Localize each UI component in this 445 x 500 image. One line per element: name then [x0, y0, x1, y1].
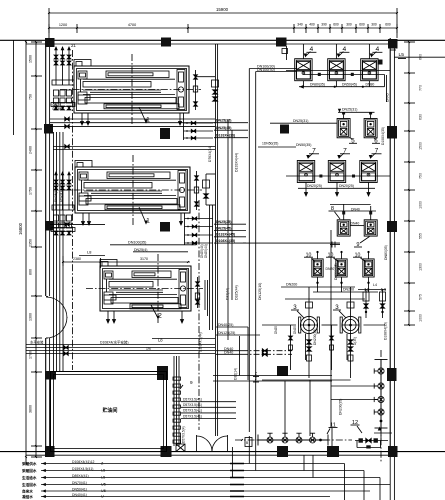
svg-text:1500: 1500	[419, 142, 423, 150]
svg-text:1700: 1700	[29, 351, 33, 359]
svg-text:1500: 1500	[29, 55, 33, 63]
svg-text:生活给水: 生活给水	[22, 475, 37, 480]
svg-text:750: 750	[29, 94, 33, 100]
svg-text:D32(14): D32(14)	[234, 368, 238, 380]
svg-text:DN25: DN25	[293, 326, 297, 334]
svg-text:630: 630	[419, 114, 423, 120]
svg-text:DN25(45): DN25(45)	[216, 126, 231, 130]
svg-text:DN80(35): DN80(35)	[310, 82, 325, 86]
svg-text:2: 2	[158, 313, 162, 320]
svg-text:DN80: DN80	[366, 82, 375, 86]
svg-text:DN40: DN40	[351, 222, 360, 226]
svg-text:DN125(25): DN125(25)	[218, 331, 235, 335]
svg-text:1: 1	[146, 218, 150, 225]
svg-text:DN200: DN200	[286, 283, 297, 287]
svg-text:DN100(35): DN100(35)	[128, 241, 147, 245]
svg-text:DN70(41): DN70(41)	[72, 481, 87, 485]
svg-text:贮油间: 贮油间	[102, 407, 118, 414]
svg-text:自来水: 自来水	[22, 488, 33, 493]
svg-text:800: 800	[29, 269, 33, 275]
svg-text:300: 300	[371, 23, 377, 27]
svg-text:770: 770	[419, 85, 423, 91]
svg-text:水平安装: 水平安装	[30, 340, 44, 345]
svg-text:2400: 2400	[29, 146, 33, 154]
svg-text:D57X3.5(41): D57X3.5(41)	[183, 414, 202, 418]
svg-text:3800: 3800	[29, 405, 33, 413]
svg-text:凝结水: 凝结水	[22, 494, 33, 499]
svg-text:DN25(31): DN25(31)	[293, 119, 308, 123]
svg-text:DN50(35): DN50(35)	[296, 143, 311, 147]
svg-text:采暖供水: 采暖供水	[21, 461, 37, 466]
svg-text:D133X4(45): D133X4(45)	[216, 233, 235, 237]
svg-text:DN50(41): DN50(41)	[72, 487, 87, 491]
svg-text:DN25(44): DN25(44)	[204, 244, 208, 258]
svg-text:D57X3.5(41): D57X3.5(41)	[183, 403, 202, 407]
svg-text:21: 21	[71, 43, 76, 48]
svg-text:1300: 1300	[419, 263, 423, 271]
svg-text:DN40(25): DN40(25)	[218, 323, 233, 327]
svg-text:750: 750	[419, 173, 423, 179]
svg-text:DN200(35): DN200(35)	[339, 399, 343, 415]
svg-text:DN40(41): DN40(41)	[72, 493, 87, 497]
svg-text:16800: 16800	[18, 222, 23, 235]
svg-text:1DN50(35): 1DN50(35)	[262, 141, 278, 145]
svg-text:340: 340	[297, 23, 303, 27]
svg-text:L5: L5	[399, 52, 405, 58]
svg-text:DN25(44): DN25(44)	[200, 244, 204, 258]
svg-text:DN50(45): DN50(45)	[342, 82, 357, 86]
svg-text:555: 555	[419, 233, 423, 239]
svg-text:D76X4(14): D76X4(14)	[208, 146, 212, 162]
svg-text:D325(44): D325(44)	[235, 285, 239, 300]
svg-text:1750: 1750	[29, 187, 33, 195]
svg-text:1300: 1300	[29, 313, 33, 321]
svg-text:600: 600	[359, 23, 365, 27]
svg-text:DN200: DN200	[343, 288, 354, 292]
svg-text:DN300(35): DN300(35)	[334, 263, 338, 280]
svg-text:DN25(25): DN25(25)	[216, 119, 231, 123]
svg-text:300: 300	[346, 23, 352, 27]
svg-text:1000: 1000	[419, 314, 423, 322]
svg-text:D159X4.5(41): D159X4.5(41)	[72, 467, 93, 471]
svg-text:600: 600	[385, 23, 391, 27]
svg-text:DN20(25): DN20(25)	[307, 184, 322, 188]
svg-text:2350: 2350	[29, 239, 33, 247]
svg-text:600: 600	[333, 23, 339, 27]
svg-text:D108X4(35): D108X4(35)	[216, 239, 235, 243]
svg-text:DN80(35): DN80(35)	[384, 245, 388, 260]
svg-text:D57X3.5(41): D57X3.5(41)	[183, 409, 202, 413]
svg-text:生活回水: 生活回水	[22, 482, 37, 487]
svg-text:L5: L5	[101, 476, 105, 480]
svg-text:DN25(14): DN25(14)	[54, 188, 58, 203]
svg-text:390: 390	[321, 23, 327, 27]
svg-text:DN100(30): DN100(30)	[257, 68, 275, 72]
svg-text:DN200(35): DN200(35)	[313, 329, 317, 345]
svg-text:U5: U5	[101, 489, 106, 493]
svg-text:D108X4(水平安装): D108X4(水平安装)	[100, 340, 128, 345]
svg-text:DN25(25): DN25(25)	[216, 220, 231, 224]
svg-text:DN25(45): DN25(45)	[216, 226, 231, 230]
svg-text:D133X4(10): D133X4(10)	[216, 134, 235, 138]
svg-text:DN25(31): DN25(31)	[342, 108, 357, 112]
svg-text:9: 9	[190, 380, 193, 385]
svg-text:DN25(4): DN25(4)	[134, 248, 147, 252]
svg-text:L4: L4	[373, 283, 377, 287]
svg-text:D57X3.5(41): D57X3.5(41)	[183, 398, 202, 402]
svg-text:D57X3.5(4): D57X3.5(4)	[182, 426, 186, 443]
svg-text:DN25 Z: DN25 Z	[53, 107, 65, 111]
svg-text:4700: 4700	[128, 23, 136, 27]
svg-text:400: 400	[309, 23, 315, 27]
svg-text:1%: 1%	[146, 347, 151, 351]
svg-text:DN125(10): DN125(10)	[258, 283, 262, 300]
svg-text:DN25: DN25	[274, 326, 278, 334]
svg-text:1000: 1000	[419, 201, 423, 209]
svg-text:D108X4(41)12: D108X4(41)12	[72, 460, 94, 464]
svg-text:DN20(25): DN20(25)	[339, 184, 354, 188]
svg-text:13: 13	[364, 287, 370, 293]
svg-text:U: U	[101, 495, 104, 499]
svg-text:L5: L5	[101, 469, 105, 473]
svg-text:D108X4(35): D108X4(35)	[384, 322, 388, 340]
svg-text:D159X4.5(44): D159X4.5(44)	[199, 332, 203, 352]
svg-text:1200: 1200	[59, 23, 67, 27]
svg-text:D133X4(44): D133X4(44)	[235, 153, 239, 172]
svg-text:575: 575	[419, 294, 423, 300]
svg-text:14: 14	[381, 287, 387, 293]
svg-text:D108X4(35): D108X4(35)	[381, 127, 385, 145]
svg-text:D89X4(41): D89X4(41)	[72, 474, 89, 478]
svg-text:2380: 2380	[73, 257, 81, 261]
svg-text:3170: 3170	[140, 257, 148, 261]
svg-text:D(35): D(35)	[353, 337, 357, 345]
svg-text:15900: 15900	[216, 7, 229, 12]
svg-text:U5: U5	[101, 483, 106, 487]
svg-text:D32(44): D32(44)	[226, 288, 230, 300]
svg-text:采暖回水: 采暖回水	[21, 468, 37, 473]
